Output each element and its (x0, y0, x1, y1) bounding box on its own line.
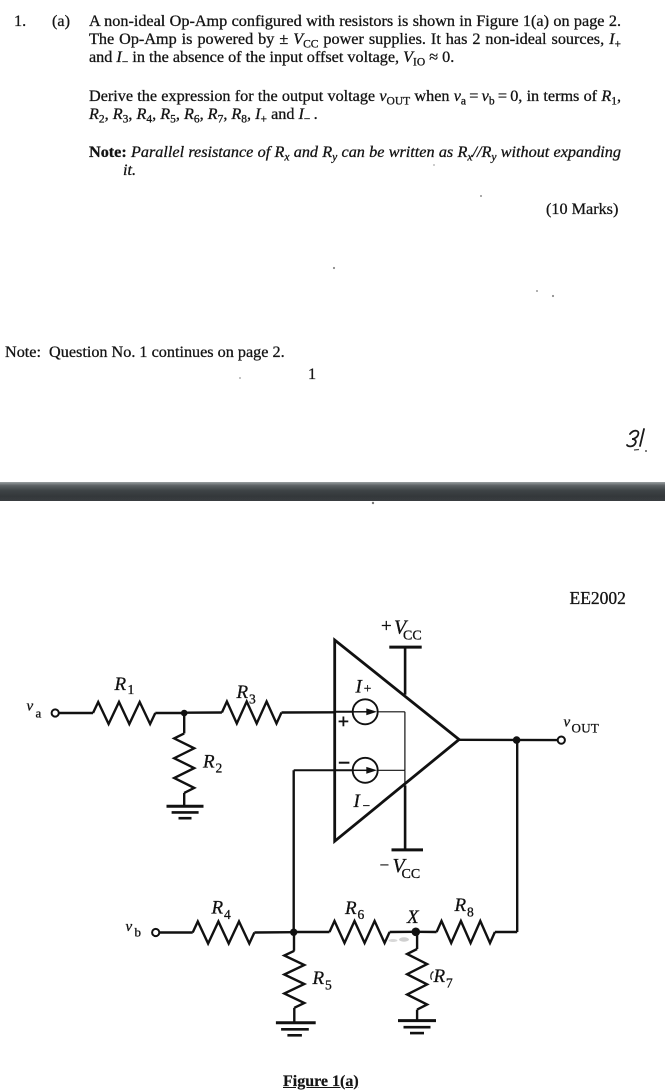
resistor R8 (437, 921, 495, 943)
wire vb to R4 (160, 931, 193, 933)
wire R2 to ground (183, 793, 185, 806)
svg-text:+: + (381, 616, 392, 637)
svg-text:a: a (36, 706, 42, 721)
course code EE2002 (570, 590, 626, 607)
label R3 (236, 682, 257, 706)
current source I+ (353, 699, 378, 724)
part label (a) (52, 12, 70, 30)
label R1 (114, 674, 135, 697)
op-amp U1 triangle (335, 640, 459, 841)
svg-text:v: v (27, 699, 34, 715)
handwritten mark 31 (622, 424, 662, 460)
terminal vout (558, 737, 565, 744)
thin supply rail inside op-amp (404, 712, 406, 771)
wire R3 to op-amp noninverting input (282, 711, 335, 714)
figure caption (283, 1073, 359, 1090)
node B junction (290, 929, 297, 936)
terminal va (52, 709, 59, 716)
svg-text:X: X (406, 907, 420, 928)
svg-text:R: R (236, 682, 249, 703)
wire node X down to R7 (416, 932, 418, 949)
label R8 (454, 895, 475, 919)
label +Vcc (381, 616, 422, 644)
wire R5 to ground (293, 1008, 295, 1022)
negative supply bar -Vcc (392, 848, 424, 851)
wire node B down to R5 (293, 932, 295, 951)
thin rail continuation below Iminus (404, 770, 406, 785)
svg-text:R: R (114, 674, 127, 695)
inverting input minus sign (339, 762, 350, 764)
node X junction (412, 928, 421, 937)
svg-text:4: 4 (224, 907, 231, 922)
wire inverting feedback node B up to op-amp (293, 770, 295, 932)
svg-text:1: 1 (128, 682, 135, 697)
label I+ (355, 677, 372, 698)
svg-text:v: v (126, 919, 133, 935)
marks label (546, 200, 618, 218)
ground under R7 (398, 1021, 436, 1034)
wire R6 to node X (390, 931, 416, 934)
continuation note (5, 343, 285, 361)
label -Vcc (380, 855, 421, 882)
wire into current source Iminus (294, 769, 353, 771)
resistor R2 (174, 733, 194, 793)
svg-text:b: b (135, 925, 142, 940)
label vb (126, 919, 142, 940)
node A junction (181, 710, 188, 717)
label R4 (211, 898, 232, 922)
paragraph 1 (89, 12, 621, 66)
svg-text:R: R (433, 966, 446, 987)
resistor R3 (222, 702, 282, 724)
wire R1 to node A (155, 712, 184, 714)
resistor R6 (330, 921, 390, 943)
noninverting input plus sign (339, 717, 349, 727)
wire node A down to R2 (183, 713, 185, 733)
label R7 (431, 966, 453, 991)
svg-text:R: R (202, 751, 215, 772)
ground under R2 (167, 806, 204, 818)
svg-text:+: + (364, 681, 372, 696)
note paragraph (89, 143, 621, 179)
positive supply stub (404, 647, 407, 695)
svg-text:R: R (312, 968, 325, 989)
label R5 (312, 968, 333, 992)
svg-text:7: 7 (446, 976, 453, 991)
wire va to R1 (59, 712, 93, 714)
ground under R5 (276, 1023, 316, 1036)
output node junction (513, 736, 521, 744)
svg-text:CC: CC (403, 629, 422, 644)
label va (27, 699, 42, 721)
wire R4 to node B (254, 931, 293, 934)
positive supply bar +Vcc (389, 646, 421, 649)
thin link wire I+ to supply rail (378, 711, 405, 713)
resistor R5 (284, 951, 304, 1008)
resistor R1 (93, 702, 155, 724)
feedback wire down from output node (516, 740, 518, 932)
wire node A to R3 (184, 711, 222, 714)
wire into current source I+ (335, 711, 353, 713)
page number 1 (308, 365, 316, 383)
svg-text:v: v (564, 715, 571, 731)
svg-text:8: 8 (467, 905, 474, 920)
dark separator bar (0, 482, 665, 501)
current source Iminus (353, 758, 378, 783)
label Iminus (353, 791, 371, 813)
svg-text:5: 5 (325, 977, 332, 992)
feedback wire bottom corner to R8 (495, 931, 517, 933)
label R6 (344, 898, 365, 922)
paragraph 2 (89, 87, 621, 123)
wire R7 to ground (416, 1010, 418, 1020)
svg-text:2: 2 (216, 761, 223, 776)
svg-text:R: R (344, 898, 357, 919)
label vout (564, 715, 600, 736)
wire op-amp output (459, 739, 558, 742)
wire node B to R6 (294, 931, 330, 933)
svg-text:3: 3 (249, 692, 256, 707)
question number 1. (14, 12, 26, 30)
svg-text:I: I (353, 791, 362, 812)
negative supply stub (404, 785, 407, 850)
resistor R7 (407, 949, 427, 1010)
svg-text:6: 6 (358, 907, 365, 922)
label R2 (202, 751, 222, 775)
resistor R4 (193, 922, 255, 944)
thin link wire Iminus to supply rail (378, 769, 405, 771)
svg-text:R: R (454, 895, 467, 916)
svg-text:−: − (363, 798, 371, 813)
svg-text:−: − (380, 856, 390, 875)
svg-text:I: I (355, 677, 364, 698)
svg-text:CC: CC (402, 867, 421, 882)
svg-text:OUT: OUT (572, 721, 600, 736)
svg-text:R: R (211, 898, 224, 919)
terminal vb (152, 929, 159, 936)
wire node X to R8 (416, 931, 437, 934)
